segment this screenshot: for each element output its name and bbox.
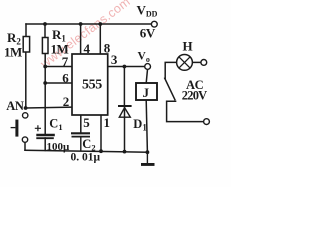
junction dots (24, 22, 150, 154)
capacitor C2 (71, 133, 90, 136)
svg-text:3: 3 (111, 52, 118, 67)
wire: pin 4 lead (80, 24, 82, 54)
wire: C1 bottom lead (44, 138, 46, 150)
wire: pin 8 lead (99, 24, 101, 54)
svg-text:5: 5 (83, 115, 90, 130)
svg-text:4: 4 (84, 41, 91, 56)
wire: R1 top lead (44, 24, 46, 38)
node: pin6 junction (43, 81, 47, 85)
svg-text:2: 2 (63, 94, 70, 109)
diode D1 cathode bar (118, 105, 132, 107)
C1 plus sign (35, 125, 41, 131)
button bottom terminal (22, 137, 27, 142)
wire: pin 5 lead (80, 115, 82, 133)
svg-text:J: J (143, 85, 150, 100)
svg-text:H: H (183, 39, 193, 54)
node: pin4 rail junction (79, 22, 83, 26)
svg-text:6: 6 (62, 70, 69, 85)
svg-text:8: 8 (104, 40, 111, 55)
wire: C2 bottom lead (80, 137, 82, 151)
svg-text:100μ: 100μ (47, 141, 71, 153)
diode D1 triangle (119, 108, 130, 118)
wire: R2 bottom lead to AN node (25, 52, 27, 108)
wire: bottom ground rail (25, 150, 147, 152)
wire: pin 2 line from AN node (26, 106, 73, 109)
wire: R1 bottom lead / timing node down to C1 (44, 54, 46, 135)
terminal VDD (151, 21, 157, 27)
wire: pin 7 line (45, 66, 72, 68)
wire: AC lower lead to contact (167, 101, 204, 121)
IC 555 box (72, 54, 108, 115)
svg-text:0. 01μ: 0. 01μ (71, 152, 101, 164)
button actuator stub (11, 127, 16, 129)
terminal AC bottom (204, 119, 210, 125)
wire: D1 bottom lead through triangle to rail (124, 106, 126, 152)
node: pin8 rail junction (98, 22, 102, 26)
node: D1 rail junction (123, 150, 127, 154)
svg-text:1M: 1M (51, 42, 69, 57)
svg-text:555: 555 (82, 78, 102, 93)
button actuator bar (15, 120, 18, 137)
lamp H (177, 55, 193, 71)
button top terminal (23, 113, 28, 118)
terminal AC top (201, 60, 207, 66)
wire: J top lead from Vo (146, 69, 147, 83)
wire: pin 1 lead (100, 115, 102, 151)
node: pin1 rail junction (99, 149, 103, 153)
wire: D1 top lead (123, 67, 125, 107)
node: R1 top junction (43, 22, 47, 26)
wire: lamp right lead (192, 61, 201, 63)
node: pin3/D1 junction (123, 65, 127, 69)
relay coil J box (136, 83, 157, 100)
node: J/ground rail junction (146, 150, 150, 154)
svg-text:1M: 1M (4, 45, 22, 60)
node: AN trigger node (24, 106, 28, 110)
capacitor C1 (36, 135, 55, 138)
wire: pin 6 line (45, 82, 72, 84)
wire: lamp left lead (165, 62, 176, 78)
svg-text:220V: 220V (182, 89, 207, 103)
svg-text:1: 1 (104, 115, 111, 130)
terminal Vo (145, 64, 151, 70)
ground symbol (146, 152, 148, 163)
resistor R2 body (23, 37, 29, 53)
wire: pin 3 output line (108, 66, 145, 68)
resistor R1 body (42, 38, 48, 54)
relay contact blade (165, 78, 175, 99)
watermark www.elecfans.com (37, 0, 133, 71)
wire: R2 top lead (25, 24, 27, 37)
node: pin7 junction (43, 65, 47, 69)
wire: J bottom lead (146, 100, 147, 152)
wire: VDD top rail (26, 23, 151, 25)
svg-text:AN: AN (6, 99, 24, 113)
svg-text:6V: 6V (140, 26, 156, 41)
wire: button bottom lead (24, 142, 26, 150)
